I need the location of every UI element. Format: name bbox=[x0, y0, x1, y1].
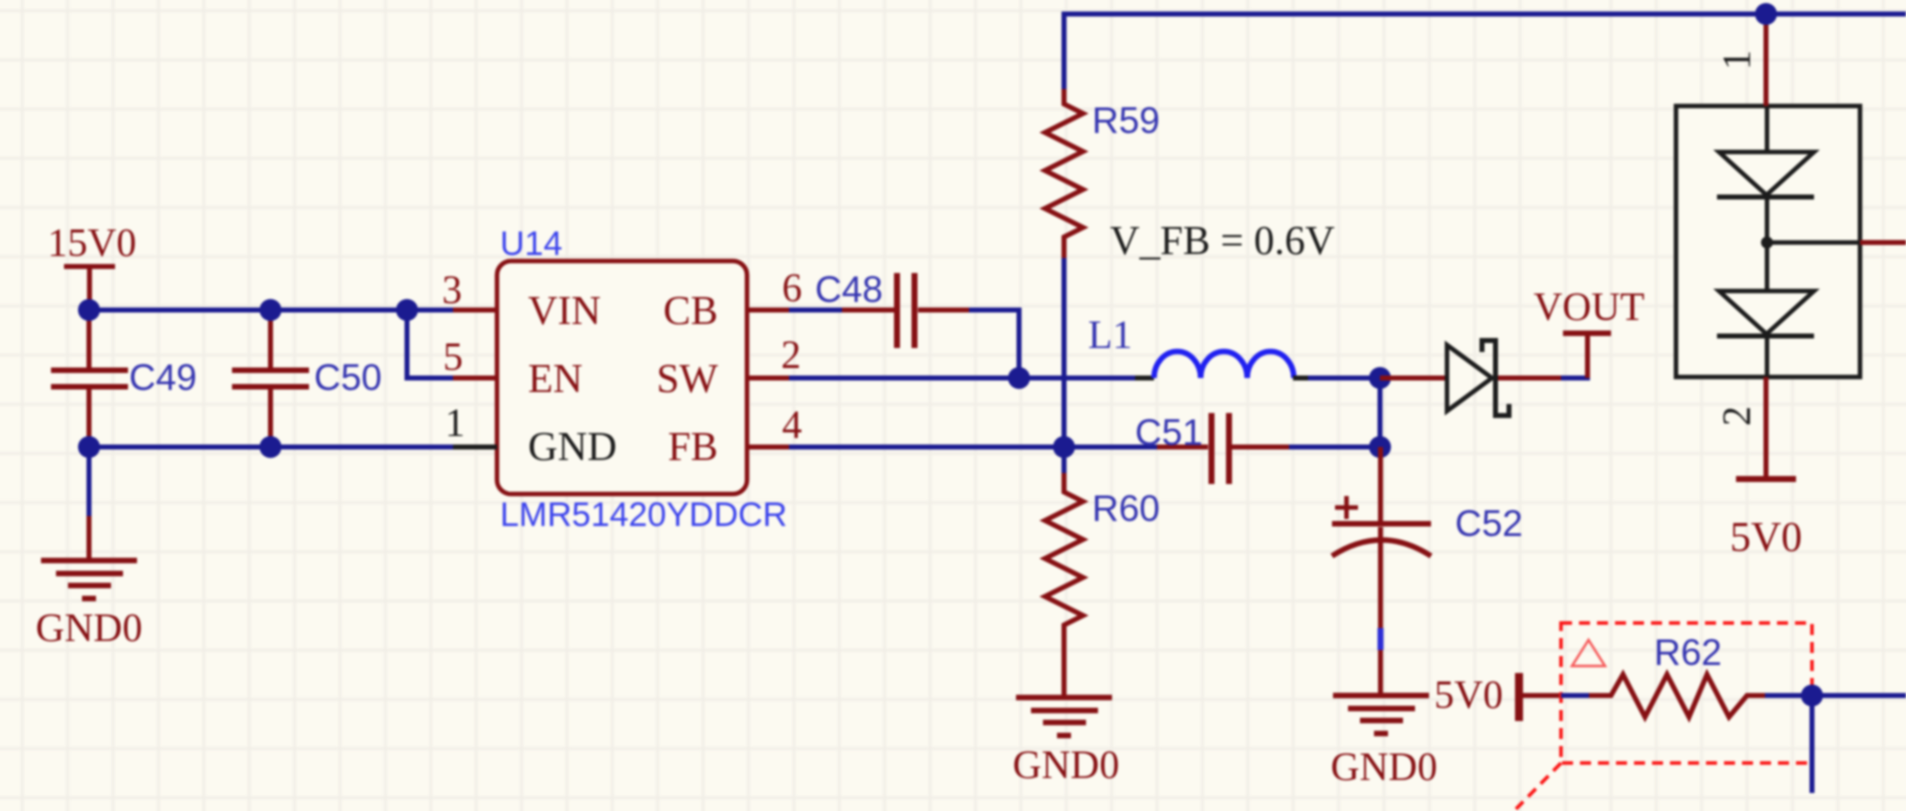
svg-text:C51: C51 bbox=[1135, 412, 1203, 453]
junction node C51/C52 bbox=[1369, 436, 1391, 458]
svg-text:GND0: GND0 bbox=[1013, 742, 1120, 787]
capacitor C52 polarized bbox=[1332, 447, 1523, 693]
svg-text:3: 3 bbox=[442, 267, 462, 312]
junction node VOUT/L1 bbox=[1369, 367, 1391, 389]
wire to ground bbox=[87, 447, 92, 516]
svg-text:R62: R62 bbox=[1654, 632, 1722, 673]
svg-text:V_FB = 0.6V: V_FB = 0.6V bbox=[1110, 217, 1335, 263]
wire EN branch bbox=[407, 310, 453, 378]
wire L1 to out node bbox=[1308, 376, 1380, 381]
svg-text:GND: GND bbox=[528, 423, 617, 469]
svg-text:C48: C48 bbox=[815, 269, 883, 310]
power port 15V0 bbox=[48, 220, 137, 310]
svg-text:GND0: GND0 bbox=[36, 605, 143, 650]
wire VIN top rail bbox=[89, 308, 453, 313]
svg-text:LMR51420YDDCR: LMR51420YDDCR bbox=[500, 496, 787, 534]
capacitor C51 bbox=[1135, 412, 1289, 484]
diode D2 bottom bbox=[1719, 291, 1814, 334]
svg-text:C49: C49 bbox=[129, 357, 197, 398]
svg-text:1: 1 bbox=[1714, 50, 1759, 70]
wire out node to diode bbox=[1380, 376, 1447, 381]
inductor L1 bbox=[1088, 312, 1311, 378]
junction node top wire bbox=[1755, 3, 1777, 25]
svg-text:L1: L1 bbox=[1088, 312, 1132, 357]
wire down from junction bbox=[1810, 696, 1815, 794]
svg-text:1: 1 bbox=[445, 400, 465, 445]
pin 1 top of diode box bbox=[1714, 14, 1766, 106]
svg-text:C50: C50 bbox=[314, 357, 382, 398]
diode D schottky bbox=[1447, 341, 1509, 416]
resistor R60 bbox=[1045, 447, 1160, 695]
pin 5 EN bbox=[443, 334, 583, 401]
junction node SW/CB bbox=[1008, 367, 1030, 389]
svg-text:GND0: GND0 bbox=[1331, 744, 1438, 789]
junction node R62 bbox=[1801, 685, 1823, 707]
capacitor C48 bbox=[789, 269, 969, 348]
wire CB to SW node bbox=[969, 310, 1019, 378]
svg-text:5V0: 5V0 bbox=[1730, 515, 1802, 561]
junction node FB/R59 bbox=[1053, 436, 1075, 458]
wire C51 to out node bbox=[1289, 445, 1380, 450]
ground GND0 under R60 bbox=[1013, 698, 1120, 788]
svg-text:EN: EN bbox=[528, 355, 583, 401]
junction node GND/C50 bbox=[260, 436, 282, 458]
power port VOUT bbox=[1533, 284, 1644, 378]
svg-text:4: 4 bbox=[782, 402, 802, 447]
wire diode to VOUT bbox=[1498, 376, 1561, 381]
junction node VIN/C49 bbox=[78, 299, 100, 321]
compile-mask dashed box bbox=[1516, 623, 1812, 809]
svg-text:2: 2 bbox=[781, 332, 801, 377]
pin 6 CB bbox=[663, 265, 802, 333]
ground GND0 left bbox=[36, 561, 143, 651]
power port 5V0 left of R62 bbox=[1434, 672, 1561, 721]
junction node GND/C49 bbox=[78, 436, 100, 458]
wire VOUT top bbox=[1064, 14, 1906, 91]
resistor R59 bbox=[1045, 89, 1160, 258]
capacitor C50 bbox=[232, 310, 382, 447]
wire SW line bbox=[789, 376, 1139, 381]
pin 2 bottom of diode box bbox=[1714, 377, 1766, 477]
diode D1 top bbox=[1719, 152, 1814, 195]
wire FB line bbox=[789, 445, 1157, 450]
pin 1 GND bbox=[445, 400, 617, 469]
svg-text:2: 2 bbox=[1714, 406, 1759, 426]
junction node VIN/EN bbox=[396, 299, 418, 321]
svg-text:5V0: 5V0 bbox=[1434, 672, 1503, 717]
svg-text:FB: FB bbox=[668, 423, 718, 469]
op-amp U14 body bbox=[497, 225, 787, 534]
svg-text:C52: C52 bbox=[1455, 503, 1523, 544]
svg-text:15V0: 15V0 bbox=[48, 220, 137, 265]
wire mid tap out bbox=[1860, 240, 1906, 245]
marker triangle bbox=[1572, 640, 1605, 666]
wire GND bottom rail bbox=[89, 445, 453, 450]
wire R62 to junction bbox=[1765, 693, 1906, 698]
svg-text:6: 6 bbox=[782, 265, 802, 310]
svg-text:VOUT: VOUT bbox=[1533, 284, 1644, 329]
pin 4 FB bbox=[668, 402, 802, 469]
wire out node vertical bbox=[1378, 378, 1383, 447]
svg-text:R60: R60 bbox=[1092, 488, 1160, 529]
power port 5V0 under diode box bbox=[1730, 476, 1802, 561]
wire R59 to FB node bbox=[1062, 258, 1067, 447]
transistor array box (dual diode U?) bbox=[1676, 106, 1860, 377]
resistor R62 bbox=[1561, 632, 1765, 717]
capacitor C49 bbox=[51, 310, 197, 447]
svg-text:CB: CB bbox=[663, 287, 718, 333]
ground GND0 under C52 bbox=[1331, 696, 1438, 790]
pin 3 VIN bbox=[442, 267, 601, 333]
svg-text:R59: R59 bbox=[1092, 100, 1160, 141]
svg-text:U14: U14 bbox=[500, 225, 562, 263]
svg-text:SW: SW bbox=[657, 355, 719, 401]
svg-text:VIN: VIN bbox=[528, 287, 601, 333]
node mid tap bbox=[1761, 237, 1773, 249]
pin 2 SW bbox=[657, 332, 802, 401]
svg-text:5: 5 bbox=[443, 334, 463, 379]
junction node VIN/C50 bbox=[260, 299, 282, 321]
